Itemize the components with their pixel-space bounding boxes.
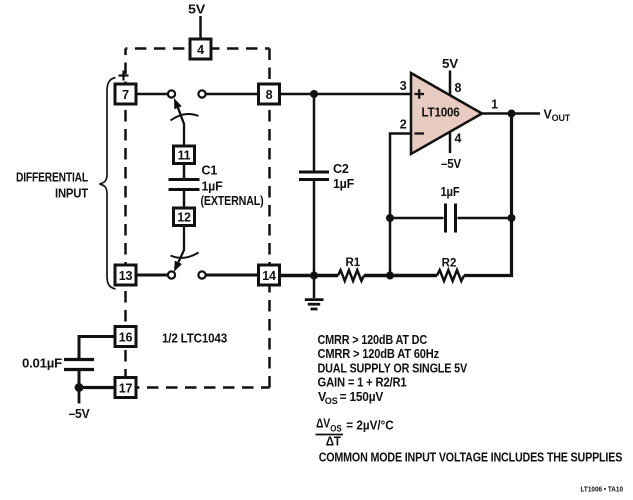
resistor R2 <box>437 270 464 281</box>
node junction dot left feedback <box>386 214 394 222</box>
pin box 11 <box>174 146 195 164</box>
svg-text:C2: C2 <box>333 162 349 176</box>
op-amp + input marker <box>415 89 425 98</box>
svg-text:= 2µV/°C: = 2µV/°C <box>346 418 394 433</box>
wire R1 to R2 <box>364 274 437 278</box>
svg-text:5V: 5V <box>188 3 206 17</box>
svg-text:17: 17 <box>119 382 133 396</box>
wire pin13 to switch contact <box>136 274 168 277</box>
svg-text:1µF: 1µF <box>441 185 460 199</box>
capacitor C1 <box>169 164 200 209</box>
svg-text:1/2 LTC1043: 1/2 LTC1043 <box>162 332 227 346</box>
switch contact upper right <box>198 90 205 97</box>
op-amp - input marker <box>415 132 425 134</box>
switch contact upper left <box>168 90 175 97</box>
capacitor C2 <box>299 94 329 276</box>
wire pin16 to 0.01uF cap <box>79 337 115 359</box>
svg-text:7: 7 <box>122 88 129 102</box>
svg-text:CMRR > 120dB AT 60Hz: CMRR > 120dB AT 60Hz <box>318 347 440 361</box>
svg-text:4: 4 <box>455 132 462 146</box>
svg-text:5V: 5V <box>442 57 459 71</box>
svg-text:2: 2 <box>400 118 407 132</box>
svg-text:8: 8 <box>266 88 273 102</box>
switch wiper upper <box>178 108 184 145</box>
svg-text:LT1006 • TA10: LT1006 • TA10 <box>581 485 624 494</box>
svg-text:= 150µV: = 150µV <box>340 390 384 404</box>
wire pin8 to op-amp +input <box>280 93 411 96</box>
op-amp -5V supply <box>449 131 452 153</box>
wire to -5V <box>78 388 81 404</box>
node junction dot output <box>508 110 516 118</box>
svg-text:R2: R2 <box>442 258 457 270</box>
wire inverting feedback vertical <box>390 134 411 276</box>
pin box 4 <box>190 39 211 59</box>
pin box 16 <box>115 327 136 347</box>
pin box 12 <box>174 208 195 226</box>
capacitor 1uF feedback <box>446 204 456 233</box>
switch motion arc lower <box>171 253 199 258</box>
wire feedback capacitor row <box>390 217 444 220</box>
svg-text:INPUT: INPUT <box>55 187 88 201</box>
brace differential input <box>100 78 116 290</box>
svg-text:12: 12 <box>177 210 191 224</box>
node junction dot C2 top <box>310 90 318 98</box>
svg-text:0.01µF: 0.01µF <box>22 357 63 371</box>
dashed segment pin16 to pin17 <box>124 347 127 378</box>
switch contact lower right <box>198 271 205 278</box>
svg-text:C1: C1 <box>202 164 218 178</box>
svg-text:–5V: –5V <box>69 407 91 421</box>
svg-text:COMMON MODE INPUT VOLTAGE INCL: COMMON MODE INPUT VOLTAGE INCLUDES THE S… <box>319 450 623 464</box>
switch wiper lower <box>178 226 184 263</box>
wire R2 to output node <box>464 114 512 276</box>
svg-text:1µF: 1µF <box>202 180 224 194</box>
svg-text:14: 14 <box>262 269 276 283</box>
svg-text:LT1006: LT1006 <box>422 106 460 120</box>
svg-text:R1: R1 <box>345 257 360 269</box>
svg-text:8: 8 <box>455 81 462 95</box>
wire pin7 to switch contact <box>136 93 168 96</box>
svg-text:OS: OS <box>330 423 342 434</box>
node junction dot feedback bottom <box>386 272 394 280</box>
svg-text:3: 3 <box>400 79 407 93</box>
svg-text:ΔV: ΔV <box>316 417 331 431</box>
node + (pin 7 polarity) <box>119 71 129 81</box>
pin box 17 <box>115 378 136 398</box>
wire pin14 to R1 <box>280 274 338 278</box>
wire cap to pin17 <box>79 386 115 389</box>
svg-text:16: 16 <box>119 331 133 345</box>
svg-text:CMRR > 120dB AT DC: CMRR > 120dB AT DC <box>318 333 428 347</box>
pin box 14 <box>259 265 280 285</box>
svg-text:OS: OS <box>325 396 338 406</box>
wire 5V to pin 4 <box>199 16 202 39</box>
LTC1043 dashed package outline <box>126 49 270 388</box>
svg-text:DIFFERENTIAL: DIFFERENTIAL <box>16 171 88 185</box>
node junction dot right feedback <box>508 214 516 222</box>
switch motion arc upper <box>171 114 199 120</box>
wire op-amp output <box>482 112 540 115</box>
svg-text:11: 11 <box>178 148 191 162</box>
pin box 13 <box>115 265 136 285</box>
svg-text:–5V: –5V <box>441 157 462 171</box>
svg-text:DUAL SUPPLY OR SINGLE 5V: DUAL SUPPLY OR SINGLE 5V <box>318 361 468 375</box>
pin box 7 <box>115 84 136 104</box>
svg-text:ΔT: ΔT <box>326 435 342 449</box>
svg-text:1µF: 1µF <box>333 177 355 191</box>
pin box 8 <box>259 84 280 104</box>
wire switch contact to pin14 <box>206 274 259 277</box>
svg-text:4: 4 <box>197 43 204 57</box>
capacitor 0.01uF <box>64 360 94 388</box>
svg-text:(EXTERNAL): (EXTERNAL) <box>201 194 264 208</box>
node junction dot C2 bottom / ground <box>310 272 318 280</box>
op-amp U1 LT1006 <box>411 73 482 154</box>
switch contact lower left <box>168 271 175 278</box>
svg-text:1: 1 <box>491 98 498 112</box>
wire switch contact to pin8 <box>206 93 259 96</box>
resistor R1 <box>338 270 364 281</box>
svg-text:13: 13 <box>119 269 133 283</box>
ground <box>305 276 324 310</box>
svg-text:GAIN = 1 + R2/R1: GAIN = 1 + R2/R1 <box>318 375 407 389</box>
node junction dot -5V <box>75 383 84 392</box>
